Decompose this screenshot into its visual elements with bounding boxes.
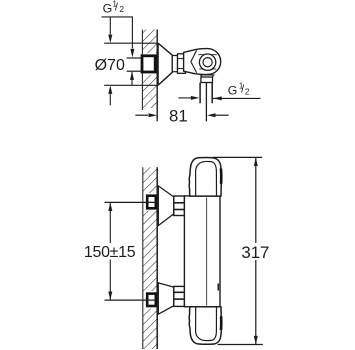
- svg-text:Ø70: Ø70: [95, 57, 125, 74]
- svg-text:2: 2: [245, 86, 250, 96]
- svg-text:G: G: [228, 83, 238, 97]
- svg-text:81: 81: [169, 107, 188, 126]
- svg-text:150±15: 150±15: [84, 244, 136, 261]
- svg-text:2: 2: [119, 4, 124, 14]
- svg-text:G: G: [103, 1, 113, 15]
- svg-text:317: 317: [241, 243, 269, 262]
